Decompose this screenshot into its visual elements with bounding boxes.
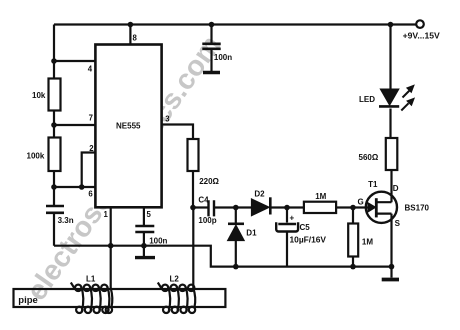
svg-text:10k: 10k: [32, 91, 46, 100]
svg-text:5: 5: [147, 210, 152, 219]
svg-text:1M: 1M: [315, 192, 326, 201]
svg-text:8: 8: [133, 34, 138, 43]
svg-text:NE555: NE555: [116, 122, 141, 131]
svg-text:S: S: [395, 219, 401, 228]
svg-text:+9V...15V: +9V...15V: [403, 31, 440, 41]
svg-text:BS170: BS170: [405, 204, 430, 213]
svg-text:L2: L2: [170, 275, 180, 284]
svg-text:4: 4: [88, 64, 93, 73]
svg-text:D2: D2: [254, 190, 265, 199]
svg-text:100k: 100k: [27, 152, 45, 161]
svg-text:1: 1: [104, 210, 109, 219]
svg-text:7: 7: [89, 114, 93, 123]
svg-text:L1: L1: [86, 275, 96, 284]
svg-text:2: 2: [89, 144, 94, 153]
svg-text:560Ω: 560Ω: [359, 153, 379, 162]
svg-text:D1: D1: [246, 229, 257, 238]
svg-text:C4: C4: [198, 196, 209, 205]
svg-text:220Ω: 220Ω: [199, 177, 219, 186]
svg-text:D: D: [393, 184, 399, 193]
svg-text:10µF/16V: 10µF/16V: [290, 235, 327, 245]
svg-text:100n: 100n: [214, 53, 232, 62]
svg-text:pipe: pipe: [18, 295, 38, 306]
svg-text:100n: 100n: [149, 236, 167, 245]
svg-text:3.3n: 3.3n: [58, 216, 74, 225]
svg-text:+: +: [290, 214, 295, 223]
svg-text:1M: 1M: [362, 238, 373, 247]
svg-text:G: G: [358, 197, 364, 206]
svg-text:3: 3: [165, 115, 170, 124]
svg-text:6: 6: [88, 190, 93, 199]
svg-text:C5: C5: [300, 223, 311, 232]
svg-text:LED: LED: [359, 95, 375, 104]
svg-text:100p: 100p: [198, 216, 216, 225]
svg-text:T1: T1: [368, 180, 378, 189]
